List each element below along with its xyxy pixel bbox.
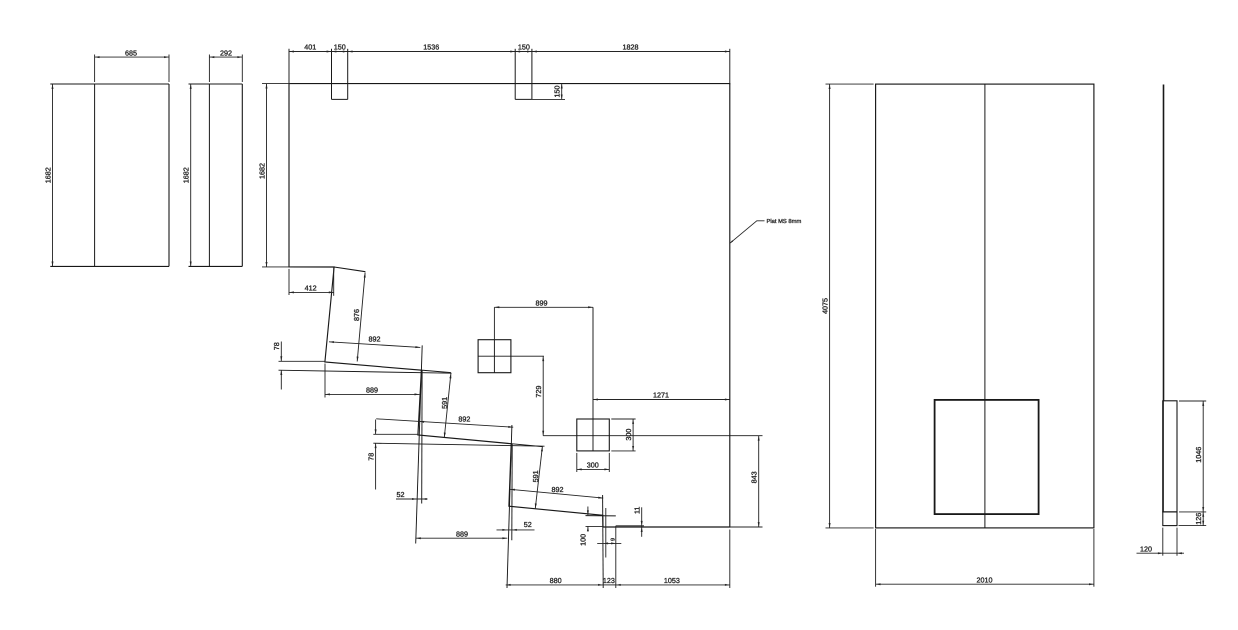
dim 843 bbox=[750, 436, 760, 527]
svg-text:889: 889 bbox=[366, 386, 378, 395]
riser 2 right edge bbox=[421, 370, 423, 503]
square hole 1 center lines bbox=[478, 340, 544, 373]
ext 1053 right bbox=[729, 530, 731, 589]
ext line 123 right bbox=[615, 526, 617, 588]
svg-text:892: 892 bbox=[458, 415, 470, 424]
dim 2010 ext lines bbox=[876, 529, 1094, 587]
svg-text:292: 292 bbox=[220, 48, 232, 57]
svg-text:401: 401 bbox=[304, 43, 316, 52]
dim 685 bbox=[95, 48, 169, 58]
svg-text:1536: 1536 bbox=[423, 43, 439, 52]
tread 3 end reference line bbox=[586, 515, 616, 517]
plate view 2 outline (292x1682 panel) bbox=[189, 84, 243, 266]
big plate outline (2010x4075) bbox=[876, 84, 1094, 528]
riser 1 top edge bbox=[334, 267, 365, 272]
svg-text:52: 52 bbox=[397, 490, 405, 499]
svg-text:150: 150 bbox=[553, 86, 562, 98]
svg-text:591: 591 bbox=[531, 470, 540, 482]
dim 892 tread 2 bbox=[376, 415, 513, 428]
dim 120 bbox=[1137, 545, 1185, 555]
dim 100 bbox=[579, 507, 603, 546]
dim 1053 bbox=[616, 576, 730, 586]
dim 892 tread 1 bbox=[329, 335, 420, 349]
dim 843 ext bottom bbox=[730, 526, 763, 528]
square hole 1 (300x300) bbox=[478, 340, 511, 373]
dim 300 vertical bbox=[624, 419, 634, 451]
svg-text:880: 880 bbox=[550, 576, 562, 585]
notch 2 (150 wide slot) bbox=[515, 49, 532, 100]
dim 1828 bbox=[532, 43, 730, 53]
riser 2 left edge bbox=[416, 345, 423, 543]
dim 4075 bbox=[820, 84, 830, 528]
svg-text:300: 300 bbox=[587, 461, 599, 470]
svg-text:876: 876 bbox=[352, 309, 361, 321]
dim 4075 ext lines bbox=[826, 84, 874, 528]
svg-text:4075: 4075 bbox=[820, 298, 829, 314]
svg-text:899: 899 bbox=[536, 299, 548, 308]
svg-text:Plat MS 8mm: Plat MS 8mm bbox=[767, 218, 802, 225]
svg-text:1046: 1046 bbox=[1194, 447, 1203, 463]
dim 2010 bbox=[876, 575, 1094, 585]
dim 892 tread 3 bbox=[510, 485, 603, 498]
dim 1046 bbox=[1194, 401, 1204, 512]
dim 150 notch2 bbox=[515, 43, 532, 53]
dim 126 bbox=[1194, 512, 1204, 526]
dim 292 extension lines bbox=[209, 55, 242, 83]
last riser second edge bbox=[605, 508, 607, 558]
tread 2 top edge extension bbox=[511, 444, 542, 447]
dim 9 tiny bbox=[597, 538, 621, 544]
dim 889 lower bbox=[416, 530, 507, 540]
dim 11 step line bbox=[616, 525, 644, 527]
dim 292 bbox=[209, 48, 242, 58]
dim 1046 ext lines bbox=[1179, 401, 1206, 512]
dim 876 riser 1 bbox=[352, 273, 366, 362]
tread 1 bottom edge bbox=[279, 370, 452, 373]
dim 52 riser 3 bbox=[497, 520, 535, 531]
svg-text:892: 892 bbox=[552, 485, 564, 494]
svg-text:300: 300 bbox=[624, 429, 633, 441]
square hole 2 center vertical long bbox=[592, 307, 594, 451]
dim 1271 bbox=[593, 391, 730, 401]
big plate center bend line bbox=[984, 84, 986, 528]
svg-text:1053: 1053 bbox=[664, 576, 680, 585]
svg-text:11: 11 bbox=[633, 507, 642, 514]
dim 123 bbox=[603, 576, 616, 585]
dim 120 ext lines bbox=[1163, 528, 1177, 556]
tread 2 top extension bbox=[373, 433, 418, 435]
svg-text:52: 52 bbox=[524, 520, 532, 529]
notch 1 (150 wide slot) bbox=[332, 49, 348, 100]
svg-text:1682: 1682 bbox=[257, 163, 266, 179]
label Plat MS 8mm leader bbox=[730, 221, 765, 244]
dim 78 tread 2 bbox=[366, 420, 376, 490]
svg-text:123: 123 bbox=[603, 576, 615, 585]
svg-text:1682: 1682 bbox=[43, 167, 52, 183]
svg-text:126: 126 bbox=[1194, 513, 1203, 525]
dim 300 horizontal bbox=[577, 461, 610, 471]
svg-text:685: 685 bbox=[125, 48, 137, 57]
plate view 2 bend line bbox=[208, 84, 210, 266]
square hole 2 (300x300) bbox=[577, 419, 610, 451]
svg-text:1828: 1828 bbox=[623, 43, 639, 52]
dim 126 ext line bbox=[1179, 525, 1207, 527]
dim 685 extension lines bbox=[95, 55, 169, 83]
dim 591 riser 2 bbox=[440, 373, 451, 437]
tread 2 bottom edge bbox=[373, 443, 544, 446]
stair plate outline bbox=[289, 84, 730, 527]
svg-text:120: 120 bbox=[1140, 545, 1152, 554]
dim 889 tread 1 bbox=[325, 364, 419, 398]
plate view 1 bend line bbox=[94, 84, 96, 266]
riser 3 right edge bbox=[511, 444, 513, 541]
big plate window opening bbox=[935, 400, 1039, 514]
dim 412 bbox=[289, 267, 334, 296]
dim 1682 view1 bbox=[43, 84, 53, 266]
edge view bottom rect bbox=[1163, 512, 1177, 526]
svg-text:150: 150 bbox=[518, 43, 530, 52]
dim 1682 view2 bbox=[182, 84, 192, 266]
svg-text:412: 412 bbox=[305, 284, 317, 293]
dim 11 bbox=[633, 507, 643, 537]
label Plat MS 8mm text bbox=[767, 218, 802, 225]
dim 300 ext below bbox=[577, 453, 610, 472]
svg-text:843: 843 bbox=[750, 471, 759, 483]
svg-text:78: 78 bbox=[272, 342, 281, 350]
dim 1536 bbox=[348, 43, 516, 53]
dim 899 bbox=[494, 299, 593, 309]
svg-text:1682: 1682 bbox=[182, 167, 191, 183]
square hole 2 center horizontal long bbox=[543, 435, 762, 437]
dim 401 bbox=[289, 43, 332, 53]
svg-text:591: 591 bbox=[440, 397, 449, 409]
dim 729 bbox=[534, 356, 544, 436]
svg-text:150: 150 bbox=[334, 43, 346, 52]
svg-text:729: 729 bbox=[534, 386, 543, 398]
svg-text:889: 889 bbox=[456, 530, 468, 539]
dim 52 riser 2 bbox=[396, 490, 428, 500]
svg-text:78: 78 bbox=[366, 453, 375, 461]
edge view lower rect bbox=[1163, 401, 1177, 512]
dim 150 notch1 bbox=[332, 43, 348, 53]
plate view 1 outline (685x1682 panel) bbox=[50, 84, 169, 266]
svg-text:892: 892 bbox=[369, 335, 381, 344]
top dim chain extension lines bbox=[289, 49, 730, 85]
dim 591 riser 3 bbox=[531, 446, 543, 508]
dim 880 bbox=[506, 576, 603, 586]
edge view top line bbox=[1163, 85, 1165, 401]
dim 1682 stair plate bbox=[257, 84, 290, 267]
ext 899 left bbox=[493, 307, 495, 339]
dim 150 notch depth bbox=[532, 84, 565, 100]
svg-text:100: 100 bbox=[579, 534, 588, 546]
riser 3 left edge bbox=[507, 425, 512, 588]
tread 1 top extension bbox=[279, 360, 325, 362]
last riser edge bbox=[602, 495, 605, 588]
svg-text:2010: 2010 bbox=[977, 575, 993, 584]
svg-text:1271: 1271 bbox=[653, 391, 669, 400]
tread 1 top edge extension bbox=[421, 370, 451, 373]
dim 300 ext right bbox=[611, 419, 635, 451]
dim 78 tread 1 bbox=[272, 342, 282, 390]
